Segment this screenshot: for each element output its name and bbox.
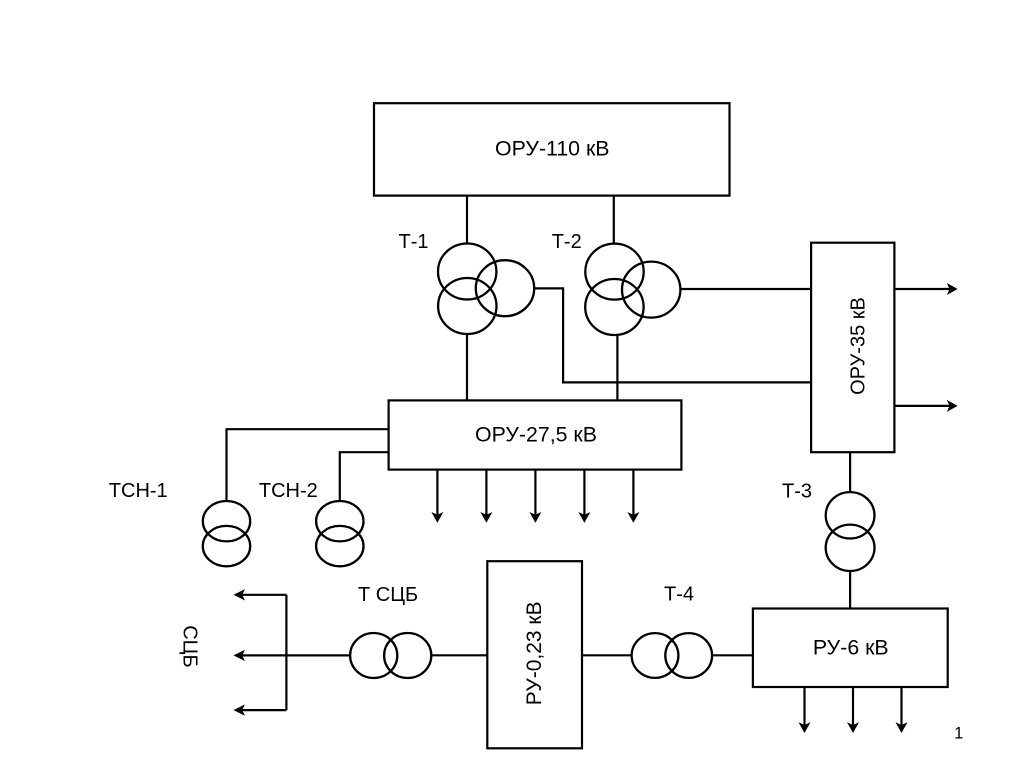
wire T-1 bottom to ОРУ-27,5 xyxy=(466,334,468,400)
bus ОРУ-27,5 кВ xyxy=(389,400,682,469)
transformer T-3 xyxy=(826,492,875,571)
wire ОРУ-27,5 to ТСН-1 xyxy=(227,429,389,500)
feeder arrow 5 from ОРУ-27,5 xyxy=(632,470,634,516)
wire ОРУ-110 to T-2 xyxy=(613,196,615,243)
svg-text:РУ-0,23 кВ: РУ-0,23 кВ xyxy=(523,601,546,705)
feeder arrow from ОРУ-35 lower xyxy=(894,405,950,407)
svg-text:Т-1: Т-1 xyxy=(399,231,429,253)
svg-text:ТСН-2: ТСН-2 xyxy=(259,480,318,502)
feeder arrow 3 from РУ-6 xyxy=(900,687,902,726)
wire РУ-0,23 to Т СЦБ xyxy=(432,654,487,656)
bus РУ-0,23 кВ xyxy=(487,561,582,748)
svg-text:РУ-6 кВ: РУ-6 кВ xyxy=(813,636,889,660)
transformer ТСН-2 xyxy=(316,501,363,566)
transformer Т СЦБ xyxy=(350,633,431,678)
feeder arrow 1 from ОРУ-27,5 xyxy=(436,470,438,516)
wire ОРУ-27,5 to ТСН-2 xyxy=(340,452,389,500)
bus ОРУ-35 кВ xyxy=(811,243,894,453)
svg-text:ТСН-1: ТСН-1 xyxy=(109,480,168,502)
feeder arrow 3 from ОРУ-27,5 xyxy=(534,470,536,516)
bus РУ-6 кВ xyxy=(753,609,948,688)
svg-text:Т-2: Т-2 xyxy=(552,231,582,253)
feeder arrow СЦБ bottom xyxy=(242,709,286,711)
wire СЦБ branch vertical xyxy=(285,595,287,710)
svg-text:Т-3: Т-3 xyxy=(782,481,812,503)
svg-text:ОРУ-35 кВ: ОРУ-35 кВ xyxy=(848,297,870,395)
wire T-2 right winding to ОРУ-35 xyxy=(681,288,812,290)
feeder arrow 2 from ОРУ-27,5 xyxy=(485,470,487,516)
wire T-4 to РУ-0,23 xyxy=(582,654,631,656)
wire T-3 to РУ-6 xyxy=(849,571,851,609)
svg-text:СЦБ: СЦБ xyxy=(178,625,200,667)
svg-text:Т-4: Т-4 xyxy=(664,583,694,605)
svg-text:ОРУ-27,5 кВ: ОРУ-27,5 кВ xyxy=(475,422,597,446)
feeder arrow from ОРУ-35 upper xyxy=(894,288,950,290)
svg-text:1: 1 xyxy=(954,725,963,743)
feeder arrow 1 from РУ-6 xyxy=(803,687,805,726)
feeder arrow СЦБ top xyxy=(242,594,286,596)
bus ОРУ-110 кВ xyxy=(374,103,730,195)
svg-text:Т СЦБ: Т СЦБ xyxy=(358,584,418,606)
transformer T-1 xyxy=(438,244,534,335)
wire Т СЦБ to СЦБ feeder arrow middle xyxy=(242,654,349,656)
svg-text:ОРУ-110 кВ: ОРУ-110 кВ xyxy=(495,137,609,161)
wire РУ-6 to T-4 xyxy=(713,654,753,656)
wire T-1 right winding to node corner xyxy=(534,288,811,382)
wire ОРУ-35 to T-3 xyxy=(849,452,851,492)
feeder arrow 4 from ОРУ-27,5 xyxy=(583,470,585,516)
transformer ТСН-1 xyxy=(203,501,250,566)
wire ОРУ-110 to T-1 xyxy=(466,196,468,243)
wire T-2 bottom to ОРУ-27,5 xyxy=(616,335,618,400)
feeder arrow 2 from РУ-6 xyxy=(852,687,854,726)
transformer T-4 xyxy=(632,633,713,678)
transformer T-2 xyxy=(585,244,680,335)
